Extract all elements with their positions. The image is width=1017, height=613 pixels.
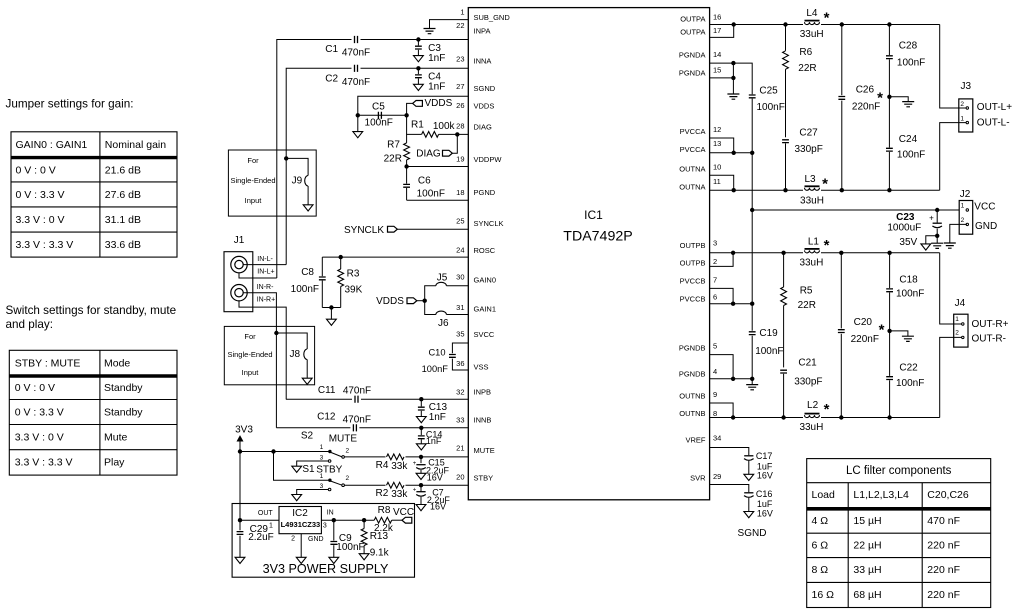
node OUTPA junction pin17 bbox=[732, 22, 736, 26]
svg-text:PVCCA: PVCCA bbox=[680, 145, 706, 154]
node DIAG junction bbox=[455, 132, 459, 136]
node SGND/C5 junction bbox=[356, 113, 360, 117]
svg-text:2.2uF: 2.2uF bbox=[248, 532, 274, 543]
svg-text:C27: C27 bbox=[799, 128, 818, 139]
svg-text:28: 28 bbox=[456, 121, 464, 130]
svg-text:OUT-R+: OUT-R+ bbox=[972, 319, 1009, 330]
connector J1 input jacks bbox=[224, 235, 253, 312]
capacitor C18 100nF bbox=[886, 253, 924, 331]
svg-text:Standby: Standby bbox=[104, 406, 143, 418]
wire 3V3 to S2 pin1 bbox=[240, 451, 329, 453]
svg-text:J3: J3 bbox=[961, 81, 972, 92]
wire PGND pin18 bbox=[407, 199, 469, 201]
svg-text:C26: C26 bbox=[856, 85, 875, 96]
node OUT/C29 junction bbox=[238, 518, 242, 522]
svg-text:1nF: 1nF bbox=[429, 412, 446, 423]
svg-text:33: 33 bbox=[456, 416, 464, 425]
wire MUTE pin21 bbox=[344, 456, 468, 458]
wire INNB pin33 bbox=[276, 427, 468, 429]
svg-text:100nF: 100nF bbox=[757, 102, 785, 113]
svg-text:*: * bbox=[822, 176, 828, 193]
svg-text:SGND: SGND bbox=[474, 84, 496, 93]
node VDDPW junction bbox=[404, 164, 408, 168]
svg-text:R5: R5 bbox=[800, 286, 813, 297]
svg-text:S2: S2 bbox=[301, 431, 314, 442]
svg-text:1: 1 bbox=[960, 116, 964, 123]
svg-text:22 µH: 22 µH bbox=[853, 540, 881, 552]
3V3 power supply block outline bbox=[232, 504, 414, 578]
node IN/C9 junction bbox=[332, 518, 336, 522]
svg-text:15 µH: 15 µH bbox=[853, 515, 881, 527]
wire OUTPB pins 3/2 bracket bbox=[710, 253, 940, 267]
svg-text:INNB: INNB bbox=[474, 415, 492, 424]
svg-text:DIAG: DIAG bbox=[474, 123, 493, 132]
capacitor C17 1uF 16V on VREF pin34 bbox=[710, 448, 773, 481]
svg-text:C5: C5 bbox=[372, 102, 385, 113]
net flag VDDS at pin26 bbox=[407, 98, 453, 115]
svg-text:470nF: 470nF bbox=[342, 48, 370, 59]
capacitor C24 100nF bbox=[886, 97, 925, 190]
svg-text:1: 1 bbox=[961, 202, 965, 209]
svg-text:330pF: 330pF bbox=[795, 144, 823, 155]
svg-text:PGNDA: PGNDA bbox=[679, 69, 706, 78]
svg-text:OUTNB: OUTNB bbox=[679, 392, 705, 401]
svg-text:SYNCLK: SYNCLK bbox=[474, 219, 504, 228]
svg-text:R4: R4 bbox=[376, 460, 389, 471]
ground C23 power bbox=[931, 243, 943, 248]
connector J4 OUT-R bbox=[954, 298, 968, 347]
capacitor C13 1nF to ground bbox=[416, 399, 447, 423]
svg-text:VDDS: VDDS bbox=[376, 296, 404, 307]
wire OUT-R- from OUTNB bbox=[940, 336, 964, 417]
node L1 junction bbox=[781, 251, 785, 255]
svg-text:2: 2 bbox=[346, 475, 350, 482]
svg-text:100nF: 100nF bbox=[897, 150, 925, 161]
svg-text:0 V : 3.3 V: 0 V : 3.3 V bbox=[15, 406, 64, 418]
resistor R2 33k bbox=[376, 481, 409, 500]
capacitor C15 2.2uF 16V bbox=[413, 457, 450, 482]
ground under C5 bbox=[353, 115, 363, 138]
svg-text:Single-Ended: Single-Ended bbox=[227, 350, 272, 359]
node C28/C24 midpoint ground bbox=[887, 95, 914, 107]
wire IN-R- to INNB bbox=[243, 293, 276, 428]
capacitor C9 100nF bbox=[329, 520, 365, 563]
wire PGNDB pins 5/4 bbox=[710, 355, 753, 379]
svg-text:3: 3 bbox=[713, 239, 717, 248]
svg-text:PGNDB: PGNDB bbox=[679, 344, 706, 353]
node INPA junction bbox=[416, 37, 420, 41]
svg-text:2: 2 bbox=[961, 217, 965, 224]
svg-text:100nF: 100nF bbox=[291, 284, 319, 295]
svg-text:8 Ω: 8 Ω bbox=[812, 564, 829, 576]
svg-text:PGND: PGND bbox=[474, 188, 496, 197]
svg-text:C16: C16 bbox=[756, 489, 773, 499]
svg-text:9: 9 bbox=[713, 390, 717, 399]
node VDDS junction bbox=[404, 113, 408, 117]
node R6/C27 bottom on OUTNA bbox=[783, 188, 787, 192]
node 3V3/STBY junction bbox=[271, 449, 275, 453]
svg-text:8: 8 bbox=[713, 409, 717, 418]
svg-text:IC2: IC2 bbox=[292, 508, 308, 519]
capacitor C14 1nF to ground bbox=[416, 428, 442, 450]
svg-text:470nF: 470nF bbox=[342, 77, 370, 88]
svg-text:33k: 33k bbox=[391, 489, 408, 500]
svg-text:35V: 35V bbox=[899, 237, 917, 248]
svg-text:L3: L3 bbox=[804, 174, 816, 185]
wire ROSC pin24 bbox=[322, 256, 468, 258]
switch S2 MUTE bbox=[301, 431, 357, 463]
svg-text:L2: L2 bbox=[807, 400, 819, 411]
switch S1 STBY bbox=[302, 464, 349, 491]
svg-text:470nF: 470nF bbox=[343, 385, 371, 396]
svg-text:2: 2 bbox=[346, 448, 350, 455]
wire C8/R3 bottom bbox=[322, 307, 340, 309]
svg-text:SVCC: SVCC bbox=[474, 330, 495, 339]
svg-text:IN-L+: IN-L+ bbox=[257, 269, 274, 276]
svg-text:SGND: SGND bbox=[738, 528, 767, 539]
svg-text:OUT-R-: OUT-R- bbox=[972, 333, 1006, 344]
svg-text:GND: GND bbox=[308, 536, 324, 543]
svg-text:Single-Ended: Single-Ended bbox=[230, 176, 275, 185]
capacitor C25 100nF bbox=[733, 63, 784, 153]
svg-text:Input: Input bbox=[245, 196, 263, 205]
svg-text:220 nF: 220 nF bbox=[927, 564, 960, 576]
resistor R4 33k bbox=[376, 453, 409, 472]
svg-text:30: 30 bbox=[456, 273, 464, 282]
svg-text:3.3 V : 3.3 V: 3.3 V : 3.3 V bbox=[16, 239, 74, 251]
svg-text:4 Ω: 4 Ω bbox=[812, 515, 829, 527]
ground IC2 pin2 bbox=[296, 534, 306, 564]
svg-text:PGNDB: PGNDB bbox=[679, 370, 706, 379]
node C23 junction on VCC rail bbox=[935, 208, 939, 212]
wire J2 GND bbox=[950, 224, 967, 243]
ground C23 signal tie bbox=[921, 236, 937, 250]
svg-text:R2: R2 bbox=[376, 488, 389, 499]
svg-text:*: * bbox=[824, 237, 830, 254]
svg-text:DIAG: DIAG bbox=[416, 149, 441, 160]
capacitor C23 1000uF 35V bbox=[887, 210, 942, 248]
svg-text:31: 31 bbox=[456, 303, 464, 312]
resistor R13 9.1k bbox=[359, 520, 389, 560]
wire PVCCB pins 7/6 bbox=[710, 288, 753, 303]
LC filter components table bbox=[807, 459, 991, 608]
svg-text:1nF: 1nF bbox=[428, 53, 445, 64]
svg-text:16V: 16V bbox=[427, 472, 443, 482]
svg-text:GAIN0 : GAIN1: GAIN0 : GAIN1 bbox=[16, 139, 88, 151]
svg-text:STBY : MUTE: STBY : MUTE bbox=[15, 357, 81, 369]
wire PVCCA to VCC rail bbox=[751, 153, 753, 210]
svg-text:220nF: 220nF bbox=[852, 102, 880, 113]
regulator IC2 L4931CZ33 bbox=[258, 507, 334, 544]
svg-text:32: 32 bbox=[456, 388, 464, 397]
wire IN-L+ shield to INPA bbox=[239, 273, 277, 278]
svg-text:C17: C17 bbox=[756, 451, 773, 461]
svg-text:S1: S1 bbox=[302, 464, 315, 475]
svg-text:*: * bbox=[879, 322, 885, 339]
node INPB junction bbox=[419, 397, 423, 401]
node IN/R13 junction bbox=[362, 518, 366, 522]
wire VDDPW pin19 bbox=[407, 166, 469, 168]
svg-text:For: For bbox=[247, 156, 259, 165]
svg-text:IC1: IC1 bbox=[584, 208, 603, 222]
svg-text:C10: C10 bbox=[428, 348, 445, 358]
svg-text:1: 1 bbox=[320, 444, 324, 451]
svg-text:C20: C20 bbox=[854, 317, 873, 328]
svg-text:26: 26 bbox=[456, 101, 464, 110]
capacitor C28 100nF bbox=[886, 25, 925, 97]
wire OUT-L- from OUTNA bbox=[940, 121, 969, 190]
ground under R3 bbox=[327, 308, 337, 326]
capacitor C3 1nF to ground bbox=[414, 40, 446, 64]
svg-text:C12: C12 bbox=[317, 412, 336, 423]
node J9 tap on INNA line bbox=[284, 156, 288, 160]
svg-text:3.3 V : 0 V: 3.3 V : 0 V bbox=[16, 214, 65, 226]
svg-text:12: 12 bbox=[713, 125, 721, 134]
capacitor C1 470nF bbox=[325, 35, 370, 58]
svg-text:GAIN0: GAIN0 bbox=[474, 275, 497, 284]
svg-text:L1,L2,L3,L4: L1,L2,L3,L4 bbox=[853, 489, 909, 501]
resistor R3 39K bbox=[338, 257, 363, 307]
gain settings table bbox=[11, 132, 177, 257]
svg-text:PGNDA: PGNDA bbox=[679, 51, 706, 60]
svg-text:C22: C22 bbox=[899, 363, 918, 374]
svg-text:3V3 POWER SUPPLY: 3V3 POWER SUPPLY bbox=[263, 562, 389, 576]
svg-text:3V3: 3V3 bbox=[235, 425, 253, 436]
svg-text:2: 2 bbox=[960, 101, 964, 108]
ground SUB_GND bbox=[424, 29, 436, 34]
wire OUTPA pins 16/17 bracket bbox=[710, 25, 940, 38]
capacitor C29 2.2uF bbox=[235, 520, 274, 563]
node MUTE/C15 junction bbox=[419, 455, 423, 459]
resistor R7 22R bbox=[384, 134, 410, 166]
svg-text:INPA: INPA bbox=[474, 27, 491, 36]
svg-text:220 nF: 220 nF bbox=[927, 589, 960, 601]
svg-text:33uH: 33uH bbox=[800, 195, 824, 206]
svg-text:27: 27 bbox=[456, 82, 464, 91]
svg-text:MUTE: MUTE bbox=[329, 434, 358, 445]
svg-text:OUTPB: OUTPB bbox=[680, 241, 706, 250]
svg-text:3: 3 bbox=[320, 483, 324, 490]
svg-text:C18: C18 bbox=[899, 275, 918, 286]
svg-text:22: 22 bbox=[456, 21, 464, 30]
ground PGNDA bbox=[727, 78, 739, 99]
wire OUT-L+ from OUTPA bbox=[940, 25, 969, 110]
svg-text:9.1k: 9.1k bbox=[370, 548, 390, 559]
resistor R5 22R bbox=[781, 253, 816, 368]
wire INPA pin22 bbox=[277, 40, 469, 279]
svg-text:19: 19 bbox=[456, 154, 464, 163]
svg-text:VDDS: VDDS bbox=[474, 101, 495, 110]
svg-text:LC filter components: LC filter components bbox=[846, 465, 952, 477]
svg-text:Nominal gain: Nominal gain bbox=[105, 139, 166, 151]
connector J3 OUT-L bbox=[959, 81, 973, 132]
svg-text:220 nF: 220 nF bbox=[927, 540, 960, 552]
svg-text:10: 10 bbox=[713, 162, 721, 171]
svg-text:OUTNB: OUTNB bbox=[679, 409, 705, 418]
svg-text:Jumper settings for gain:: Jumper settings for gain: bbox=[6, 98, 134, 111]
wire IC2 IN node bbox=[321, 519, 374, 521]
svg-text:+: + bbox=[413, 487, 417, 493]
svg-text:5: 5 bbox=[713, 342, 717, 351]
svg-text:OUT-L-: OUT-L- bbox=[977, 118, 1010, 129]
svg-text:OUTNA: OUTNA bbox=[679, 182, 705, 191]
resistor R8 2.2k with VCC flag bbox=[374, 505, 414, 534]
inductor L4 33uH bbox=[800, 8, 830, 40]
capacitor C7 2.2uF 16V bbox=[413, 485, 451, 511]
svg-text:18: 18 bbox=[456, 188, 464, 197]
capacitor C2 470nF bbox=[325, 64, 370, 88]
svg-text:R3: R3 bbox=[347, 269, 360, 280]
svg-text:0 V : 0 V: 0 V : 0 V bbox=[15, 382, 55, 394]
svg-text:1nF: 1nF bbox=[426, 436, 442, 446]
wire VCC rail bbox=[752, 209, 966, 211]
svg-text:Input: Input bbox=[242, 368, 260, 377]
svg-text:36: 36 bbox=[456, 359, 464, 368]
svg-text:20: 20 bbox=[456, 473, 464, 482]
wire INPB pin32 bbox=[286, 398, 468, 400]
ground PGNDB bbox=[746, 379, 758, 390]
svg-text:33uH: 33uH bbox=[799, 422, 823, 433]
resistor R1 100k bbox=[407, 115, 469, 137]
box For Single-Ended Input (J9) bbox=[228, 150, 316, 216]
svg-text:33k: 33k bbox=[391, 461, 408, 472]
capacitor C22 100nF bbox=[886, 331, 924, 418]
svg-text:J6: J6 bbox=[438, 318, 449, 329]
svg-text:27.6 dB: 27.6 dB bbox=[105, 189, 141, 201]
svg-text:24: 24 bbox=[456, 246, 464, 255]
svg-text:J4: J4 bbox=[955, 298, 966, 309]
IC1 left pin names and numbers bbox=[456, 8, 510, 483]
svg-text:22R: 22R bbox=[384, 153, 402, 164]
node C23 ground junction bbox=[935, 234, 939, 238]
svg-text:ROSC: ROSC bbox=[474, 246, 496, 255]
svg-text:22R: 22R bbox=[798, 300, 816, 311]
svg-text:4: 4 bbox=[713, 367, 717, 376]
svg-text:GAIN1: GAIN1 bbox=[474, 305, 497, 314]
svg-text:*: * bbox=[824, 401, 830, 418]
wire STBY pin20 bbox=[344, 484, 468, 486]
capacitor C19 100nF bbox=[749, 210, 784, 379]
svg-text:+: + bbox=[413, 461, 417, 467]
svg-text:J1: J1 bbox=[234, 235, 245, 246]
svg-text:21: 21 bbox=[456, 444, 464, 453]
svg-text:R6: R6 bbox=[799, 47, 812, 58]
svg-text:Mode: Mode bbox=[104, 357, 130, 369]
svg-text:33 µH: 33 µH bbox=[853, 564, 881, 576]
svg-text:C21: C21 bbox=[798, 358, 817, 369]
svg-text:13: 13 bbox=[713, 139, 721, 148]
box For Single-Ended Input (J8) bbox=[224, 326, 314, 384]
svg-text:C2: C2 bbox=[325, 73, 338, 84]
svg-text:SUB_GND: SUB_GND bbox=[474, 13, 511, 22]
jumper J6 GAIN1 pin31 bbox=[425, 301, 469, 329]
svg-text:17: 17 bbox=[713, 26, 721, 35]
svg-text:1: 1 bbox=[269, 523, 273, 530]
svg-text:21.6 dB: 21.6 dB bbox=[105, 164, 141, 176]
svg-text:16V: 16V bbox=[430, 501, 446, 511]
svg-text:3.3 V : 0 V: 3.3 V : 0 V bbox=[15, 431, 64, 443]
capacitor C20 220nF bbox=[838, 253, 885, 418]
svg-text:100nF: 100nF bbox=[897, 58, 925, 69]
wire OUTNB pins 9/8 bracket bbox=[710, 403, 940, 418]
svg-text:PVCCA: PVCCA bbox=[680, 127, 706, 136]
svg-text:3.3 V : 3.3 V: 3.3 V : 3.3 V bbox=[15, 457, 73, 469]
ground S1 pin3 bbox=[292, 490, 329, 501]
svg-text:100nF: 100nF bbox=[755, 346, 783, 357]
node ROSC junction bbox=[339, 255, 343, 259]
svg-text:IN-L-: IN-L- bbox=[257, 256, 273, 263]
svg-text:2: 2 bbox=[291, 535, 295, 542]
svg-text:VDDS: VDDS bbox=[425, 98, 453, 109]
capacitor C5 100nF bbox=[358, 102, 407, 129]
svg-text:and play:: and play: bbox=[6, 318, 53, 331]
svg-text:VCC: VCC bbox=[974, 202, 995, 213]
svg-text:C1: C1 bbox=[325, 44, 338, 55]
svg-text:100k: 100k bbox=[433, 121, 456, 132]
jumper J9 to ground bbox=[286, 158, 313, 211]
svg-text:100nF: 100nF bbox=[896, 378, 924, 389]
svg-text:23: 23 bbox=[456, 55, 464, 64]
svg-text:OUTNA: OUTNA bbox=[679, 164, 705, 173]
svg-text:VSS: VSS bbox=[474, 363, 489, 372]
svg-text:Mute: Mute bbox=[104, 431, 128, 443]
capacitor C8 100nF bbox=[291, 257, 326, 307]
svg-text:2: 2 bbox=[955, 330, 959, 337]
node L4 output junction bbox=[783, 22, 787, 26]
svg-text:TDA7492P: TDA7492P bbox=[563, 229, 632, 245]
svg-text:470nF: 470nF bbox=[343, 414, 371, 425]
svg-text:PVCCB: PVCCB bbox=[680, 277, 706, 286]
svg-text:1: 1 bbox=[460, 8, 464, 17]
svg-text:IN-R+: IN-R+ bbox=[257, 297, 275, 304]
svg-text:C24: C24 bbox=[899, 134, 918, 145]
svg-text:C11: C11 bbox=[318, 385, 336, 396]
svg-text:0 V : 3.3 V: 0 V : 3.3 V bbox=[16, 189, 65, 201]
wire OUT-R+ from OUTPB bbox=[940, 253, 964, 325]
connector J2 VCC/GND bbox=[959, 189, 997, 234]
svg-text:470 nF: 470 nF bbox=[927, 515, 960, 527]
svg-text:J2: J2 bbox=[960, 189, 971, 200]
wire pin1 SUB_GND bbox=[430, 20, 469, 29]
svg-text:VDDPW: VDDPW bbox=[474, 155, 503, 164]
svg-text:100nF: 100nF bbox=[336, 542, 364, 553]
wire IN-L- to INNA bbox=[243, 264, 286, 266]
capacitor C6 100nF bbox=[403, 167, 445, 201]
svg-text:GND: GND bbox=[975, 221, 997, 232]
svg-text:R7: R7 bbox=[387, 139, 400, 150]
svg-text:330pF: 330pF bbox=[794, 376, 822, 387]
svg-text:C20,C26: C20,C26 bbox=[927, 489, 969, 501]
svg-text:100nF: 100nF bbox=[896, 289, 924, 300]
wire PGNDA pins 14/15 bbox=[710, 63, 734, 78]
node INNB junction bbox=[419, 426, 423, 430]
svg-text:1: 1 bbox=[955, 316, 959, 323]
svg-text:SVR: SVR bbox=[690, 474, 706, 483]
node gain jumper junction bbox=[423, 299, 427, 303]
svg-text:IN: IN bbox=[327, 510, 334, 517]
svg-text:Play: Play bbox=[104, 457, 125, 469]
capacitor C21 330pF bbox=[780, 358, 822, 418]
svg-text:33.6 dB: 33.6 dB bbox=[105, 239, 141, 251]
svg-text:OUT-L+: OUT-L+ bbox=[977, 102, 1012, 113]
svg-text:INPB: INPB bbox=[474, 388, 492, 397]
svg-text:IN-R-: IN-R- bbox=[257, 284, 274, 291]
capacitor C10 100nF between SVCC and VSS bbox=[422, 343, 469, 374]
svg-text:1: 1 bbox=[320, 473, 324, 480]
inductor L2 33uH bbox=[799, 400, 829, 433]
svg-text:39K: 39K bbox=[345, 284, 363, 295]
svg-text:33uH: 33uH bbox=[800, 29, 824, 40]
